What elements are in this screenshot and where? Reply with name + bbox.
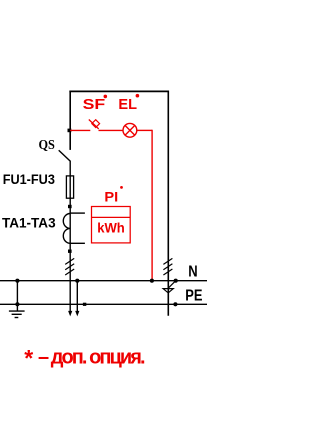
node: feeder N tap	[75, 279, 79, 283]
node: junction of lamp branch on main bus	[68, 129, 72, 133]
wire: tee to meter top	[70, 212, 85, 214]
node: junction above CT	[68, 205, 72, 208]
PE bus	[0, 303, 207, 305]
N-PE removable link blade	[168, 281, 176, 289]
arrow: main bus outgoing feeder	[68, 311, 72, 317]
asterisk for EL	[136, 94, 140, 98]
svg-text:– доп. опция.: – доп. опция.	[38, 347, 146, 369]
wire: main bus upper segment (panel left edge down to QS)	[69, 91, 71, 150]
node: link on PE bus	[173, 302, 177, 306]
wire: red branch segment from breaker to lamp	[99, 129, 124, 131]
svg-text:PI: PI	[104, 188, 118, 204]
wire: tee to meter bottom	[70, 242, 85, 244]
wire: bus through CT	[69, 207, 71, 252]
node: junction below CT	[68, 250, 72, 253]
meter PI box	[92, 207, 131, 243]
ground	[9, 311, 25, 317]
svg-text:FU1-FU3: FU1-FU3	[3, 171, 55, 187]
asterisk for SF	[104, 95, 108, 99]
wire: red branch segment from lamp to corner	[137, 129, 152, 131]
svg-text:N: N	[188, 264, 197, 281]
wire: N to PE earthing link	[16, 281, 18, 312]
node: N-PE link upper	[174, 279, 178, 283]
wire: bus from CT junction to bottom arrow	[69, 251, 71, 312]
svg-text:*: *	[24, 345, 33, 371]
node: red branch on N bus	[150, 279, 154, 283]
svg-text:PE: PE	[185, 288, 202, 305]
wire: bus from QS to fuse	[69, 161, 71, 206]
svg-text:TA1-TA3: TA1-TA3	[2, 215, 56, 231]
asterisk for PI	[120, 186, 123, 189]
node: earthing tap on N bus	[15, 279, 19, 283]
svg-text:QS: QS	[39, 138, 56, 153]
svg-text:EL: EL	[118, 96, 137, 113]
wire: red branch segment from bus to breaker	[70, 129, 90, 131]
N-PE link socket triangle	[163, 289, 173, 293]
cable marks on main bus (3 conductors)	[65, 258, 74, 275]
N bus	[0, 280, 207, 282]
svg-text:SF: SF	[83, 96, 106, 113]
node: feeder PE tap	[83, 303, 86, 306]
cable marks on right riser (3 conductors)	[163, 258, 172, 275]
circuit breaker SF blade	[89, 120, 99, 129]
wire: red branch vertical down to N bus	[151, 130, 153, 281]
fuse FU1-FU3 body	[66, 176, 73, 198]
current transformer TA1-TA3 windings	[63, 214, 70, 244]
svg-text:kWh: kWh	[97, 220, 125, 236]
wire: feeder N conductor	[76, 281, 78, 312]
disconnect switch QS blade	[59, 150, 71, 161]
circuit breaker SF release square	[92, 120, 100, 128]
node: earthing tap on PE bus	[15, 302, 19, 306]
meter PI divider	[92, 216, 131, 218]
panel enclosure right edge	[167, 91, 169, 316]
lamp EL	[123, 123, 137, 137]
panel enclosure top edge	[69, 90, 169, 92]
arrow: feeder N conductor	[75, 311, 79, 317]
